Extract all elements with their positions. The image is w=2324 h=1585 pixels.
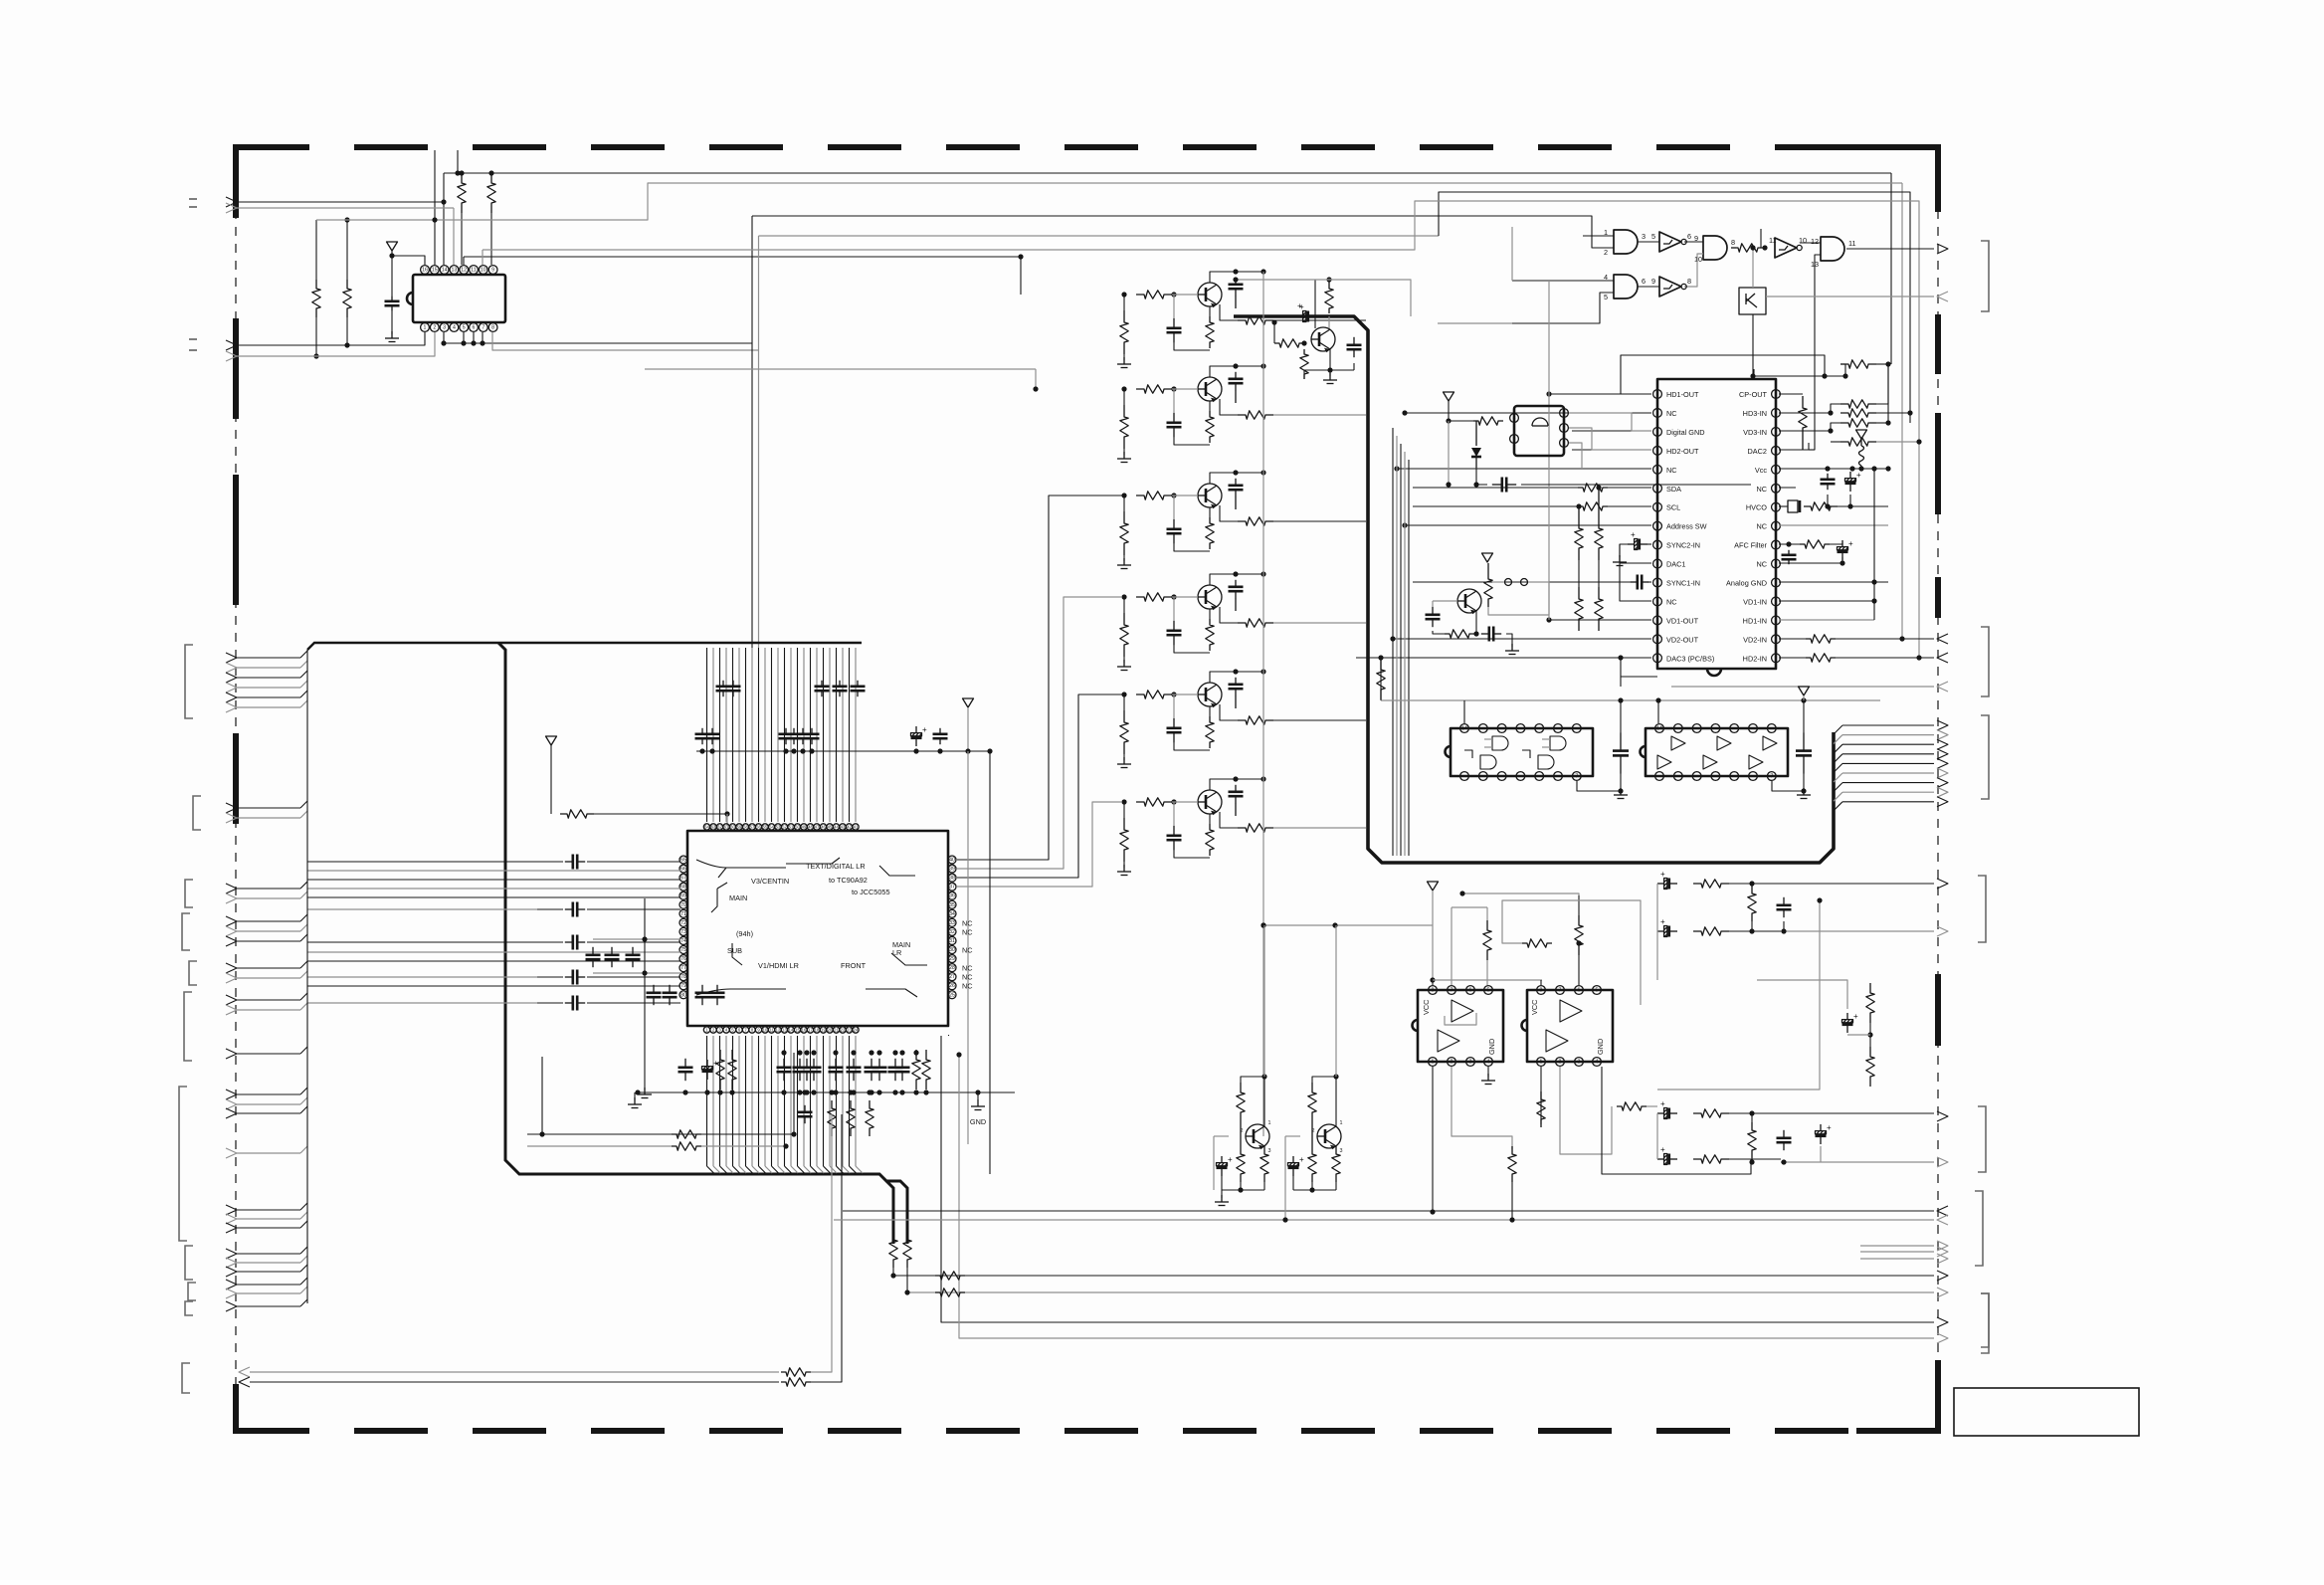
connector CN3 pin <box>226 893 237 903</box>
svg-text:NC: NC <box>1756 560 1767 569</box>
svg-text:57: 57 <box>750 825 755 830</box>
svg-text:7: 7 <box>1559 988 1562 994</box>
wire DAC1 row <box>1620 562 1651 564</box>
svg-text:18: 18 <box>815 1028 820 1033</box>
svg-text:17: 17 <box>808 1028 813 1033</box>
transistor Q7 <box>1457 589 1481 613</box>
connector group CN2 bracket <box>193 796 201 830</box>
connector CN3 pin <box>226 884 237 893</box>
wire inv feedback <box>1760 229 1762 248</box>
svg-text:43: 43 <box>841 825 846 830</box>
wires from left bus into U8 <box>307 861 537 863</box>
capacitor Cr <box>811 728 813 734</box>
svg-text:72: 72 <box>680 920 686 926</box>
wire U4 frame top <box>1621 355 1825 394</box>
connector CN1 pin <box>226 683 237 693</box>
resistor R32 <box>912 1050 920 1090</box>
wire NC8 right <box>1779 524 1888 526</box>
wire inv3 to U2C <box>1684 254 1703 287</box>
svg-text:Vcc: Vcc <box>1755 466 1768 475</box>
opto box U3 <box>1739 288 1766 314</box>
svg-text:35: 35 <box>949 902 955 908</box>
svg-text:1: 1 <box>1540 1060 1543 1066</box>
capacitor C16 <box>684 1059 686 1068</box>
capacitor C4 <box>1827 474 1829 480</box>
svg-text:+: + <box>1660 1145 1665 1154</box>
wire Q8 top rail right <box>1329 280 1411 316</box>
wire VD2-IN + resistor R21 <box>1779 638 1806 640</box>
resistor R49 divider <box>1748 1122 1756 1158</box>
power symbol VP5 <box>1799 687 1810 695</box>
wire VD1-OUT row <box>1549 619 1651 621</box>
ground G3 + label <box>977 1099 979 1106</box>
capacitor Cu <box>878 1059 880 1068</box>
IC U4 right pin HVCO <box>1772 502 1781 511</box>
transistor Q6 <box>1198 790 1222 814</box>
stage 3 input resistor <box>1136 492 1172 499</box>
IC U4 left pin VD2-OUT <box>1653 635 1662 644</box>
svg-text:33: 33 <box>949 920 955 926</box>
stage 5 base cap <box>1173 718 1175 728</box>
wire R29 right <box>594 813 727 815</box>
capacitor C2 sync2 + ground <box>1628 543 1635 545</box>
gate U2B inverter <box>1659 232 1681 252</box>
resistor R17 VD3 <box>1840 419 1876 427</box>
capacitor C14 <box>1353 337 1355 345</box>
svg-text:NC: NC <box>962 946 973 955</box>
capacitor Cr <box>793 728 795 734</box>
IC U4 right pin NC <box>1772 559 1781 568</box>
stage 2 collector cap <box>1235 372 1237 379</box>
IC U4 right pin VD2-IN <box>1772 635 1781 644</box>
stage 4 ground <box>1123 660 1125 667</box>
transistor Q10 <box>1317 1124 1341 1148</box>
wire cluster rails <box>593 938 680 940</box>
svg-text:38: 38 <box>949 876 955 882</box>
chain resistor <box>1693 880 1729 888</box>
stage 5 output wire <box>1273 719 1366 721</box>
wire rail y202 right <box>483 201 1919 658</box>
transistor Q1 <box>1198 283 1222 306</box>
svg-text:20: 20 <box>828 1028 833 1033</box>
transistor Q5 <box>1198 683 1222 706</box>
IC U1 bottom pins 1-8 <box>421 323 430 332</box>
svg-text:64: 64 <box>704 825 709 830</box>
svg-text:+: + <box>1848 539 1853 548</box>
wire Q9 collector up <box>1263 925 1265 1077</box>
chain resistor <box>1693 927 1729 935</box>
svg-text:GND: GND <box>970 1117 986 1126</box>
connector CN6 pin <box>226 1005 237 1015</box>
Q9 base wire <box>1214 1135 1229 1137</box>
border frame right (dashed) <box>1935 147 1941 212</box>
connector CN7 pin <box>226 1090 237 1099</box>
connector CN9 pin <box>226 1280 237 1289</box>
IC U8 top pins 64..41 <box>703 824 709 830</box>
stage 2 emitter resistor <box>1206 411 1214 443</box>
svg-text:9: 9 <box>1651 277 1655 286</box>
wire QFP pin23-24 drops <box>941 1036 1934 1322</box>
chain resistor <box>1693 1109 1729 1117</box>
stage 3 output resistor <box>1238 517 1273 525</box>
stage 5 collector cap <box>1235 678 1237 685</box>
wire U5 region riser <box>1448 421 1450 485</box>
svg-text:79: 79 <box>680 983 686 989</box>
svg-text:NC: NC <box>962 927 973 936</box>
svg-text:80: 80 <box>680 992 686 998</box>
connector group CN3 bracket <box>185 880 193 907</box>
capacitor C9 <box>1432 607 1434 615</box>
wire chain left stubs <box>1656 884 1658 931</box>
wire U10 pin1 down <box>1540 1067 1542 1124</box>
stage 2 bias resistor <box>1120 405 1128 449</box>
border frame top (dashed) <box>236 144 1938 150</box>
resistor R4 <box>487 173 495 213</box>
wire J2a to U1 <box>237 332 425 345</box>
svg-text:GND: GND <box>1596 1039 1605 1055</box>
stage 2 input resistor <box>1136 385 1172 393</box>
wire fan to QFP top pins <box>706 648 708 822</box>
wire AddressSW row <box>1405 524 1651 526</box>
connector group CN11 bracket <box>182 1363 190 1393</box>
svg-text:50: 50 <box>795 825 800 830</box>
wire U3 to connector <box>1766 296 1934 297</box>
connector arrow r <box>1860 1245 1934 1247</box>
capacitor C5 electrolytic <box>1849 472 1851 479</box>
capacitor Ct <box>722 681 724 687</box>
svg-text:53: 53 <box>776 825 781 830</box>
bracket right top <box>1981 241 1989 311</box>
wire rail y193 right <box>1439 192 1910 423</box>
resistor R30 <box>716 1050 724 1090</box>
svg-text:40: 40 <box>949 858 955 864</box>
capacitor Cu <box>871 1059 872 1068</box>
svg-text:NC: NC <box>962 918 973 927</box>
svg-text:14: 14 <box>1461 726 1467 732</box>
Q10 bottom rail <box>1293 1189 1336 1191</box>
capacitor Cu <box>799 1059 801 1068</box>
wire J2b to U1 <box>237 332 435 356</box>
svg-text:NC: NC <box>962 964 973 973</box>
svg-text:VD2-IN: VD2-IN <box>1743 635 1767 644</box>
gate U2E AND <box>1821 237 1844 261</box>
resistor R5 <box>1731 244 1765 252</box>
svg-text:3: 3 <box>1642 232 1646 241</box>
ground G-QFP <box>644 1088 646 1094</box>
gate U2A AND <box>1614 230 1638 254</box>
svg-text:65: 65 <box>680 858 686 864</box>
capacitor Cd2 <box>653 985 655 993</box>
wire U9 pin2 down <box>1452 1067 1512 1149</box>
svg-text:36: 36 <box>949 893 955 899</box>
resistor R8 pullup <box>1575 516 1583 560</box>
svg-text:1: 1 <box>1604 228 1608 237</box>
IC U1 body <box>413 275 505 322</box>
svg-text:12: 12 <box>461 268 467 274</box>
capacitor Cr <box>701 728 703 734</box>
stage 2 ground <box>1123 452 1125 459</box>
gate U2C AND <box>1703 236 1727 260</box>
svg-text:11: 11 <box>1848 239 1856 248</box>
connector CN7 pin <box>226 1108 237 1118</box>
resistor R28 <box>1325 284 1333 313</box>
bus branch arrows right <box>1834 725 1842 734</box>
stage 5 input resistor <box>1136 691 1172 698</box>
wire bus left of U4 <box>1392 428 1394 856</box>
wire U1 right risers <box>501 342 752 344</box>
stage 2 collector rail <box>1210 366 1236 377</box>
wire U9 pin1 down <box>1432 1067 1434 1212</box>
svg-text:SCL: SCL <box>1666 503 1680 512</box>
wire U2E output to connector <box>1846 248 1934 250</box>
wire Q10 collector up <box>1335 925 1337 1077</box>
svg-text:6: 6 <box>473 325 476 331</box>
stage 4 collector rail <box>1210 574 1236 585</box>
svg-text:55: 55 <box>763 825 768 830</box>
connector arrow r <box>1860 1251 1934 1253</box>
IC U4 right pin NC <box>1772 484 1781 493</box>
stage 4 output wire <box>1273 622 1366 624</box>
wire lower resistor pair <box>527 1133 794 1135</box>
capacitor C13 <box>1803 733 1805 751</box>
svg-text:DAC2: DAC2 <box>1748 447 1767 456</box>
power symbol VP4 <box>1482 553 1493 562</box>
capacitor Cu <box>813 1059 815 1068</box>
svg-text:FRONT: FRONT <box>841 961 867 970</box>
IC U4 left pin VD1-OUT <box>1653 616 1662 625</box>
svg-text:25: 25 <box>949 992 955 998</box>
chain resistor <box>1693 1155 1729 1163</box>
svg-text:3: 3 <box>1469 1060 1472 1066</box>
svg-text:HD2-IN: HD2-IN <box>1743 654 1767 663</box>
wire R3 bottom to U1 <box>461 213 463 265</box>
connector arrow c2 <box>1937 926 1948 936</box>
connector CN5 pin <box>226 973 237 983</box>
stage 6 bias resistor <box>1120 818 1128 862</box>
resistor R27 <box>1300 349 1308 379</box>
resistor R10 pullup <box>1575 587 1583 631</box>
svg-text:4: 4 <box>1487 1060 1490 1066</box>
IC U4 left pin SYNC1-IN <box>1653 578 1662 587</box>
connector CN7 pin <box>226 1205 237 1215</box>
svg-text:14: 14 <box>789 1028 794 1033</box>
capacitor C6 <box>1788 550 1790 555</box>
wire U7 pin7 gnd <box>1772 781 1804 791</box>
crystal X1 HVCO <box>1779 505 1788 507</box>
stage 4 base wire <box>1172 596 1198 598</box>
IC U4 right pin Vcc <box>1772 465 1781 474</box>
border frame bottom (dashed) <box>236 1428 1938 1434</box>
svg-text:1: 1 <box>424 325 427 331</box>
border frame left (dashed) <box>233 147 239 218</box>
transistor Q4 <box>1198 585 1222 609</box>
capacitor Cu <box>783 1059 785 1068</box>
svg-text:73: 73 <box>680 929 686 935</box>
IC U6 pins <box>1460 724 1469 733</box>
svg-text:HD1-OUT: HD1-OUT <box>1666 390 1699 399</box>
connector CN7 pin <box>226 1099 237 1109</box>
wire opamp row2 rail <box>1452 906 1487 908</box>
ground G2 <box>634 1092 636 1100</box>
electrolytic chain cap <box>1657 883 1664 885</box>
svg-text:NC: NC <box>1756 522 1767 531</box>
wire R2 bottom <box>346 317 348 345</box>
connector arrow third <box>1937 682 1948 692</box>
capacitor Ct2 <box>821 681 823 687</box>
wire grey drop x973 <box>967 751 969 1144</box>
svg-text:52: 52 <box>782 825 787 830</box>
wire vcc to U1 <box>391 251 393 297</box>
svg-text:78: 78 <box>680 974 686 980</box>
wire rail y184 right drop <box>1901 183 1903 639</box>
connector arrows bottom2 <box>1937 1317 1948 1327</box>
svg-text:SUB: SUB <box>727 946 742 955</box>
stage 3 emitter resistor <box>1206 517 1214 549</box>
svg-text:+: + <box>1660 1099 1665 1108</box>
transistor Q3 <box>1198 484 1222 507</box>
resistor R26 <box>1274 339 1304 347</box>
IC U7 internal inverters <box>1671 736 1685 750</box>
resistor R38 <box>935 1272 965 1280</box>
stage 2 base wire <box>1172 388 1198 390</box>
stage 4 base cap <box>1173 621 1175 631</box>
connector CN10 pin <box>226 1301 237 1311</box>
svg-text:3: 3 <box>1563 411 1566 417</box>
IC U4 left pin SCL <box>1653 502 1662 511</box>
svg-text:8: 8 <box>1731 238 1735 247</box>
svg-text:1: 1 <box>1432 1060 1435 1066</box>
svg-text:61: 61 <box>724 825 729 830</box>
svg-text:75: 75 <box>680 947 686 953</box>
svg-text:AFC Filter: AFC Filter <box>1734 541 1767 550</box>
svg-text:68: 68 <box>680 885 686 891</box>
bracket right R5 <box>1975 1191 1983 1266</box>
wire J1a to U1 pin14 <box>237 201 444 203</box>
svg-text:VD1-OUT: VD1-OUT <box>1666 616 1699 625</box>
wire HD1-IN right <box>1779 619 1874 621</box>
power symbol VP2 + inductor L1 <box>1856 430 1867 439</box>
stage 2 output wire <box>1273 414 1366 416</box>
wire CP-OUT right + resistor R13 <box>1779 393 1803 395</box>
svg-text:62: 62 <box>717 825 722 830</box>
gate U2D inverter <box>1775 238 1797 258</box>
wire U1 pin12 rail y258 <box>463 257 465 265</box>
connector CN11 pins <box>239 1367 250 1377</box>
stage 5 collector rail <box>1210 672 1236 683</box>
wire riser x756 <box>751 216 753 648</box>
wire bottom bus 3 <box>893 1275 1934 1277</box>
wire U10 vcc <box>1540 980 1542 985</box>
bracket right bottom <box>1981 1293 1989 1353</box>
stage 3 bias resistor <box>1120 511 1128 555</box>
capacitor C10 <box>1481 633 1489 635</box>
svg-text:NC: NC <box>1756 485 1767 494</box>
svg-text:Analog GND: Analog GND <box>1726 579 1767 588</box>
capacitor Cd <box>611 947 613 955</box>
svg-text:6: 6 <box>1469 988 1472 994</box>
wire J1b to U1 pin13 <box>237 207 454 209</box>
wire VP8 down <box>967 707 969 751</box>
svg-text:3: 3 <box>1340 1148 1343 1154</box>
below-rail resistors <box>828 1100 836 1136</box>
wire bottom bus 2 <box>843 1210 1934 1212</box>
svg-text:Address SW: Address SW <box>1666 522 1707 531</box>
op-amp A3 triangle <box>1560 1000 1582 1022</box>
connector arrow in1 <box>1937 292 1948 301</box>
wire HD2-IN + resistor R22 <box>1779 657 1806 659</box>
connector CN4 pin <box>226 916 237 926</box>
Q9 collector resistor <box>1237 1083 1245 1122</box>
svg-text:74: 74 <box>680 938 686 944</box>
resistor R40 <box>889 1232 897 1268</box>
svg-text:6: 6 <box>1687 232 1691 241</box>
svg-text:8: 8 <box>1432 988 1435 994</box>
capacitor Cr <box>802 728 804 734</box>
svg-text:NC: NC <box>962 973 973 982</box>
below-rail capacitor <box>804 1105 806 1112</box>
svg-text:10: 10 <box>763 1028 768 1033</box>
svg-text:10: 10 <box>1799 236 1807 245</box>
svg-text:HD1-IN: HD1-IN <box>1743 616 1767 625</box>
svg-text:VCC: VCC <box>1530 1000 1539 1015</box>
svg-text:9: 9 <box>491 268 494 274</box>
capacitor Cd2 <box>669 985 671 993</box>
stage 3 base wire <box>1172 495 1198 496</box>
ground G4 <box>1221 1190 1223 1198</box>
resistor R36 <box>781 1368 811 1376</box>
svg-text:39: 39 <box>949 867 955 873</box>
electrolytic chain cap <box>1657 930 1664 932</box>
wire R2 top <box>346 220 348 280</box>
svg-text:+: + <box>1228 1155 1233 1164</box>
resistor R46 <box>1508 1146 1516 1182</box>
wire rail y174 <box>444 172 1891 174</box>
wire VD2-OUT row <box>1393 638 1651 640</box>
bracket right R4 <box>1978 1106 1986 1172</box>
svg-text:8: 8 <box>491 325 494 331</box>
wire NC12 row <box>1620 544 1651 601</box>
svg-text:19: 19 <box>821 1028 826 1033</box>
svg-text:6: 6 <box>1578 988 1581 994</box>
connector CN1 pin <box>226 693 237 702</box>
svg-text:60: 60 <box>730 825 735 830</box>
wire AnalogGND right <box>1779 581 1888 583</box>
wire stage3-6 input staircase <box>957 495 1122 860</box>
svg-text:12: 12 <box>1811 237 1819 246</box>
stage 1 output wire <box>1273 319 1366 321</box>
wire U7 pin14 up <box>1657 700 1659 723</box>
title block box <box>1954 1388 2139 1436</box>
IC U4 left pin Address SW <box>1653 521 1662 530</box>
Q9 base resistor <box>1237 1146 1245 1182</box>
Q10 emitter resistor <box>1332 1146 1340 1182</box>
resistor R33 <box>922 1050 930 1090</box>
connector CN5 pin <box>226 963 237 973</box>
wire mid rail above QFP <box>696 750 990 752</box>
svg-text:16: 16 <box>422 268 428 274</box>
wire NC5 row <box>1397 468 1651 470</box>
connector arrow VD2 <box>1937 634 1948 644</box>
stage 6 base wire <box>1172 801 1198 803</box>
wire chain4 right <box>1781 1161 1934 1163</box>
IC U8 internal leader lines <box>696 860 786 878</box>
svg-text:31: 31 <box>949 938 955 944</box>
svg-text:67: 67 <box>680 876 686 882</box>
svg-text:1: 1 <box>1340 1120 1343 1126</box>
stage 1 input resistor <box>1136 291 1172 298</box>
connector arrow c4 <box>1937 1157 1948 1167</box>
wire riser x762 <box>758 236 760 648</box>
